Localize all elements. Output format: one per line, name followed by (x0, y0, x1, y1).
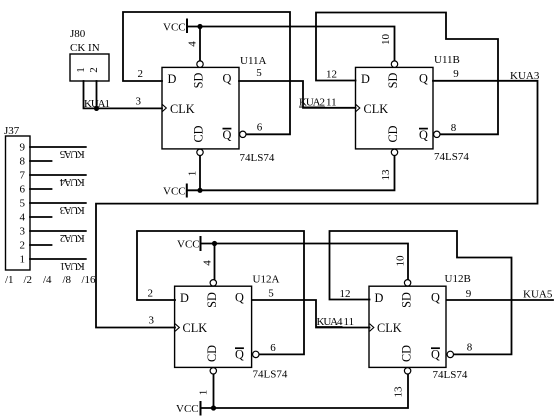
svg-text:KUA1: KUA1 (84, 98, 110, 110)
svg-text:Q: Q (431, 291, 440, 305)
svg-text:D: D (168, 72, 177, 86)
svg-text:4: 4 (187, 41, 199, 47)
svg-text:5: 5 (256, 67, 262, 79)
svg-text:7: 7 (20, 170, 26, 182)
svg-text:3: 3 (149, 315, 155, 327)
svg-text:/8: /8 (63, 274, 72, 286)
svg-text:J37: J37 (4, 125, 20, 137)
svg-text:/16: /16 (82, 274, 97, 286)
svg-text:CLK: CLK (183, 321, 208, 335)
svg-text:12: 12 (340, 288, 351, 300)
svg-text:10: 10 (380, 34, 392, 46)
svg-text:6: 6 (20, 184, 26, 196)
svg-text:U11B: U11B (434, 54, 460, 66)
svg-text:11: 11 (344, 316, 355, 328)
svg-text:KUA3: KUA3 (59, 204, 85, 216)
svg-text:SD: SD (191, 73, 205, 89)
svg-text:9: 9 (466, 288, 472, 300)
svg-text:74LS74: 74LS74 (253, 369, 288, 381)
svg-text:74LS74: 74LS74 (433, 369, 468, 381)
svg-text:/1: /1 (5, 274, 14, 286)
svg-text:J80: J80 (70, 28, 86, 40)
svg-text:Q: Q (431, 348, 440, 362)
svg-text:D: D (361, 72, 370, 86)
svg-text:KUA5: KUA5 (523, 289, 553, 301)
svg-text:2: 2 (148, 288, 154, 300)
svg-text:/4: /4 (43, 274, 52, 286)
svg-text:6: 6 (270, 342, 276, 354)
svg-text:KUA3: KUA3 (510, 70, 540, 82)
svg-text:9: 9 (20, 142, 26, 154)
svg-text:1: 1 (20, 254, 26, 266)
svg-text:VCC: VCC (176, 403, 199, 415)
svg-text:1: 1 (75, 67, 87, 73)
svg-text:74LS74: 74LS74 (434, 151, 469, 163)
svg-text:CLK: CLK (170, 102, 195, 116)
svg-text:CD: CD (205, 345, 219, 362)
svg-text:Q: Q (223, 128, 232, 142)
svg-text:10: 10 (395, 255, 407, 267)
svg-text:VCC: VCC (163, 186, 186, 198)
svg-text:CD: CD (191, 125, 205, 142)
svg-text:U12B: U12B (445, 273, 471, 285)
svg-text:KUA5: KUA5 (59, 148, 85, 160)
svg-text:1: 1 (198, 390, 210, 396)
svg-text:Q: Q (419, 128, 428, 142)
svg-text:5: 5 (268, 288, 274, 300)
svg-text:VCC: VCC (177, 239, 200, 251)
svg-text:2: 2 (138, 68, 144, 80)
svg-text:8: 8 (451, 122, 457, 134)
svg-text:CD: CD (399, 345, 413, 362)
svg-text:8: 8 (467, 342, 473, 354)
svg-text:KUA2: KUA2 (60, 232, 85, 244)
svg-text:4: 4 (20, 212, 26, 224)
svg-text:U12A: U12A (253, 274, 280, 286)
svg-text:11: 11 (326, 97, 337, 109)
svg-text:CD: CD (386, 125, 400, 142)
svg-text:KUA4: KUA4 (59, 176, 85, 188)
svg-text:13: 13 (380, 169, 392, 181)
svg-text:Q: Q (223, 72, 232, 86)
svg-text:3: 3 (136, 96, 142, 108)
svg-text:CK IN: CK IN (70, 42, 100, 54)
svg-text:U11A: U11A (240, 55, 267, 67)
svg-text:8: 8 (20, 156, 26, 168)
svg-text:D: D (375, 291, 384, 305)
svg-text:CLK: CLK (377, 321, 402, 335)
svg-text:2: 2 (88, 67, 100, 73)
svg-text:KUA1: KUA1 (60, 260, 85, 272)
svg-text:/2: /2 (24, 274, 33, 286)
svg-text:4: 4 (202, 260, 214, 266)
svg-text:5: 5 (20, 198, 26, 210)
svg-text:6: 6 (257, 122, 263, 134)
svg-text:74LS74: 74LS74 (240, 152, 275, 164)
svg-text:1: 1 (187, 171, 199, 177)
svg-text:CLK: CLK (364, 102, 389, 116)
svg-text:D: D (180, 291, 189, 305)
svg-text:2: 2 (20, 240, 26, 252)
svg-text:VCC: VCC (163, 22, 186, 34)
svg-text:9: 9 (453, 68, 459, 80)
svg-text:Q: Q (419, 72, 428, 86)
svg-text:Q: Q (235, 348, 244, 362)
svg-text:13: 13 (393, 386, 405, 398)
svg-text:SD: SD (386, 73, 400, 89)
svg-text:Q: Q (235, 291, 244, 305)
svg-text:SD: SD (399, 292, 413, 308)
svg-text:12: 12 (326, 69, 337, 81)
svg-text:SD: SD (205, 292, 219, 308)
svg-text:3: 3 (20, 226, 26, 238)
